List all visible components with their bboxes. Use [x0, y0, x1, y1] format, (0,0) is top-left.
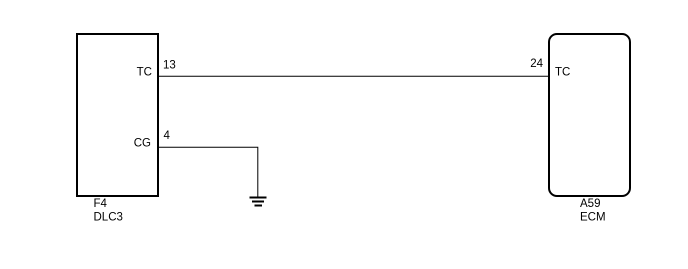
svg-text:13: 13 [163, 60, 176, 72]
svg-text:DLC3: DLC3 [94, 212, 123, 224]
svg-text:TC: TC [137, 67, 152, 79]
svg-text:TC: TC [555, 67, 570, 79]
svg-text:4: 4 [164, 130, 171, 142]
svg-text:A59: A59 [580, 198, 600, 210]
svg-text:ECM: ECM [580, 212, 606, 224]
svg-text:F4: F4 [94, 198, 108, 210]
svg-text:24: 24 [530, 58, 543, 70]
svg-text:CG: CG [134, 138, 151, 150]
